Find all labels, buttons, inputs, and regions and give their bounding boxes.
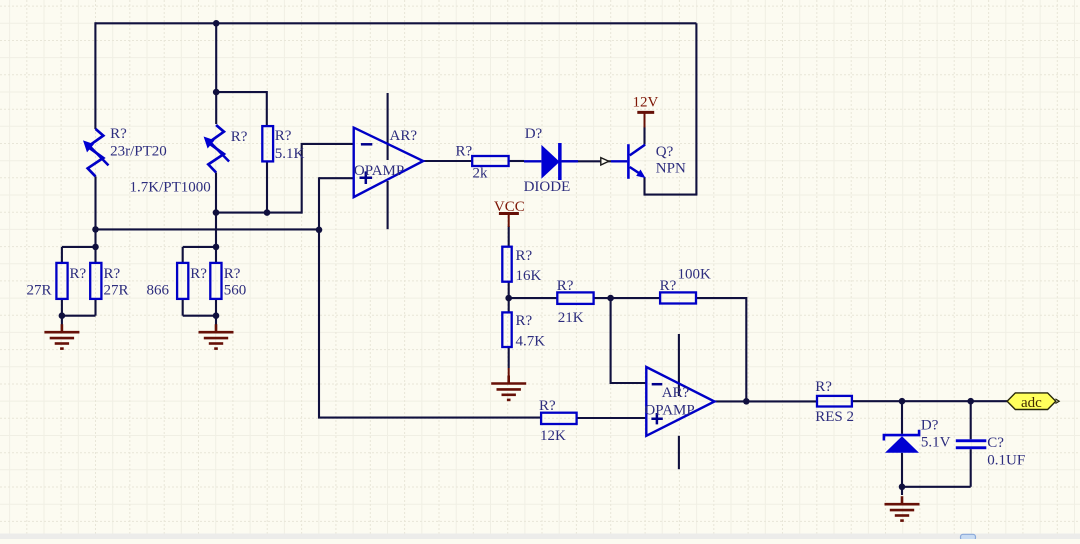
resistor R? 560 xyxy=(210,263,246,299)
op-amp AR? OPAMP (first stage) xyxy=(354,128,424,198)
wire emitter bottom horizontal xyxy=(645,194,698,196)
svg-text:AR?: AR? xyxy=(662,385,690,401)
svg-text:R?: R? xyxy=(539,398,556,414)
svg-text:VCC: VCC xyxy=(494,199,525,215)
wire ground stem middle xyxy=(215,316,217,329)
thermistor R? 1.7K/PT1000 xyxy=(130,125,248,195)
svg-text:DIODE: DIODE xyxy=(524,179,571,195)
svg-text:2k: 2k xyxy=(473,166,489,182)
ground left pair xyxy=(44,324,79,348)
wire thermistor R2 bottom lead xyxy=(215,173,217,263)
svg-text:R?: R? xyxy=(516,248,533,264)
svg-text:100K: 100K xyxy=(678,266,712,282)
wire R3 27R top lead xyxy=(61,247,63,263)
capacitor C? 0.1UF xyxy=(956,435,1025,469)
wire opamp1 power pin top xyxy=(387,93,389,160)
svg-text:R?: R? xyxy=(516,313,533,329)
wire R 2k right lead xyxy=(509,160,524,162)
wire riser to opamp1 inverting xyxy=(302,144,354,214)
junction node B xyxy=(607,295,614,302)
wire zener-capacitor bottom link xyxy=(902,486,971,488)
wire opamp1 power pin bottom xyxy=(387,181,389,229)
junction capacitor node xyxy=(967,398,974,405)
svg-text:5.1V: 5.1V xyxy=(921,434,951,450)
wire left pair top link xyxy=(62,246,96,248)
svg-text:R?: R? xyxy=(104,266,121,282)
junction node A / bus lower xyxy=(316,227,323,234)
wire ground stem right xyxy=(901,487,903,495)
junction bus upper / R2 xyxy=(213,209,220,216)
junction bus upper / R 5.1K xyxy=(264,209,271,216)
open arrow marker before transistor base xyxy=(601,158,612,165)
wire R 21K to node B xyxy=(594,297,661,299)
resistor R? 100K xyxy=(660,266,711,303)
svg-text:adc: adc xyxy=(1021,395,1042,411)
svg-text:R?: R? xyxy=(70,266,87,282)
op-amp AR? OPAMP (second stage) xyxy=(644,367,714,436)
svg-text:R?: R? xyxy=(190,266,207,282)
wire thermistor R1 top lead xyxy=(94,22,96,129)
svg-text:R?: R? xyxy=(660,278,677,294)
ground stem maroon (divider) xyxy=(508,368,510,377)
wire R4 27R bottom lead xyxy=(94,299,96,316)
svg-text:5.1K: 5.1K xyxy=(275,146,305,162)
wire right pair bottom link xyxy=(183,315,216,317)
junction divider node xyxy=(505,295,512,302)
svg-text:Q?: Q? xyxy=(656,144,674,160)
svg-text:0.1UF: 0.1UF xyxy=(987,453,1025,469)
ground output xyxy=(885,496,920,520)
junction R1 lead / pair link xyxy=(92,244,99,251)
wire top rail xyxy=(95,22,696,24)
junction feedback / output xyxy=(743,398,750,405)
junction zener node xyxy=(899,398,906,405)
zener diode D? 5.1V xyxy=(884,418,951,453)
svg-text:12V: 12V xyxy=(633,95,659,111)
wire R3 27R bottom lead xyxy=(61,299,63,316)
svg-text:OPAMP: OPAMP xyxy=(354,163,404,179)
svg-text:R?: R? xyxy=(224,266,241,282)
wire capacitor top lead xyxy=(970,401,972,439)
svg-text:R?: R? xyxy=(110,126,127,142)
svg-text:D?: D? xyxy=(525,126,543,142)
junction bottom link node xyxy=(899,484,906,491)
wire bridge bus lower xyxy=(96,228,320,230)
wire thermistor R1 bottom lead xyxy=(94,176,96,263)
bottom scrollbar strip xyxy=(0,534,1080,540)
wire node B down to opamp2 inverting xyxy=(611,297,647,383)
svg-text:866: 866 xyxy=(147,283,170,299)
svg-text:NPN: NPN xyxy=(656,161,686,177)
svg-text:R?: R? xyxy=(275,128,292,144)
diode D? DIODE xyxy=(524,126,578,195)
wire R 100K right to feedback xyxy=(696,298,746,401)
resistor R? 27R (left b) xyxy=(90,263,128,299)
wire opamp2 output xyxy=(715,400,818,402)
wire R5 866 bottom lead xyxy=(182,299,184,316)
svg-text:C?: C? xyxy=(987,435,1004,451)
svg-text:R?: R? xyxy=(456,144,473,160)
resistor R? RES 2 xyxy=(815,379,854,425)
ground divider xyxy=(491,376,526,400)
svg-text:D?: D? xyxy=(921,418,939,434)
resistor R? 21K xyxy=(557,278,594,326)
wire opamp2 power pin bottom xyxy=(678,436,680,469)
wire 12V collector lead xyxy=(643,127,645,145)
power VCC xyxy=(494,199,525,227)
wire zener top lead xyxy=(901,401,903,434)
wire R 4.7K bottom lead xyxy=(508,347,510,368)
svg-text:RES 2: RES 2 xyxy=(815,409,854,425)
junction top rail / R2 xyxy=(213,20,220,27)
svg-text:16K: 16K xyxy=(516,268,542,284)
junction right pair link xyxy=(213,244,220,251)
svg-text:27R: 27R xyxy=(27,283,52,299)
wire right pair top link xyxy=(183,246,216,248)
wire ground stem left xyxy=(61,316,63,329)
resistor R? 5.1K xyxy=(262,126,304,162)
wire R RES2 right wire xyxy=(852,400,1007,402)
wire R6 560 bottom lead xyxy=(215,299,217,316)
wire zener bottom lead xyxy=(901,453,903,488)
svg-text:R?: R? xyxy=(557,278,574,294)
wire thermistor R2 top lead xyxy=(215,22,217,124)
wire bridge bus upper xyxy=(216,212,302,214)
resistor R? 2k xyxy=(456,144,509,182)
resistor R? 27R (left a) xyxy=(27,263,87,299)
svg-text:OPAMP: OPAMP xyxy=(644,403,694,419)
wire R 16K to R 4.7K xyxy=(508,282,510,313)
wire opamp2 power pin top xyxy=(678,334,680,396)
svg-text:R?: R? xyxy=(231,129,248,145)
svg-text:27R: 27R xyxy=(104,283,129,299)
port adc xyxy=(1007,393,1059,411)
resistor R? 4.7K xyxy=(502,312,545,349)
wire VCC stem lead xyxy=(508,226,510,247)
wire diode to transistor base xyxy=(562,160,611,162)
junction R2 / 5.1K link xyxy=(213,89,220,96)
resistor R? 866 xyxy=(147,263,208,299)
wire opamp1 noninverting lead xyxy=(319,177,354,179)
junction left pair gnd xyxy=(59,312,66,319)
wire R 5.1K bottom lead xyxy=(266,161,268,212)
svg-text:R?: R? xyxy=(815,379,832,395)
svg-text:560: 560 xyxy=(224,283,247,299)
wire feedback right vertical xyxy=(695,23,697,194)
svg-text:12K: 12K xyxy=(540,428,566,444)
svg-text:4.7K: 4.7K xyxy=(516,334,546,350)
wire left pair bottom link xyxy=(62,315,96,317)
resistor R? 16K xyxy=(502,247,541,285)
scrollbar thumb artifact xyxy=(961,534,976,540)
wire node A vertical xyxy=(318,177,320,417)
svg-text:AR?: AR? xyxy=(390,128,418,144)
wire emitter lead xyxy=(643,177,645,196)
wire opamp1 output xyxy=(423,160,472,162)
wire divider to R 21K xyxy=(509,297,558,299)
ground middle pair xyxy=(199,324,234,348)
svg-text:1.7K/PT1000: 1.7K/PT1000 xyxy=(130,179,211,195)
wire capacitor bottom lead xyxy=(970,449,972,487)
resistor R? 12K xyxy=(539,398,577,444)
transistor Q? NPN xyxy=(611,144,686,179)
junction right pair gnd xyxy=(213,312,220,319)
power 12V xyxy=(633,95,659,128)
junction bus lower / R1 xyxy=(92,226,99,233)
svg-text:23r/PT20: 23r/PT20 xyxy=(110,144,167,160)
thermistor R? 23r/PT20 xyxy=(83,126,167,177)
wire R 12K to opamp2 xyxy=(577,417,647,419)
wire link to R 5.1K top xyxy=(216,92,267,126)
svg-text:21K: 21K xyxy=(558,310,584,326)
wire wire to R 12K xyxy=(318,417,541,419)
wire R5 866 top lead xyxy=(182,247,184,263)
